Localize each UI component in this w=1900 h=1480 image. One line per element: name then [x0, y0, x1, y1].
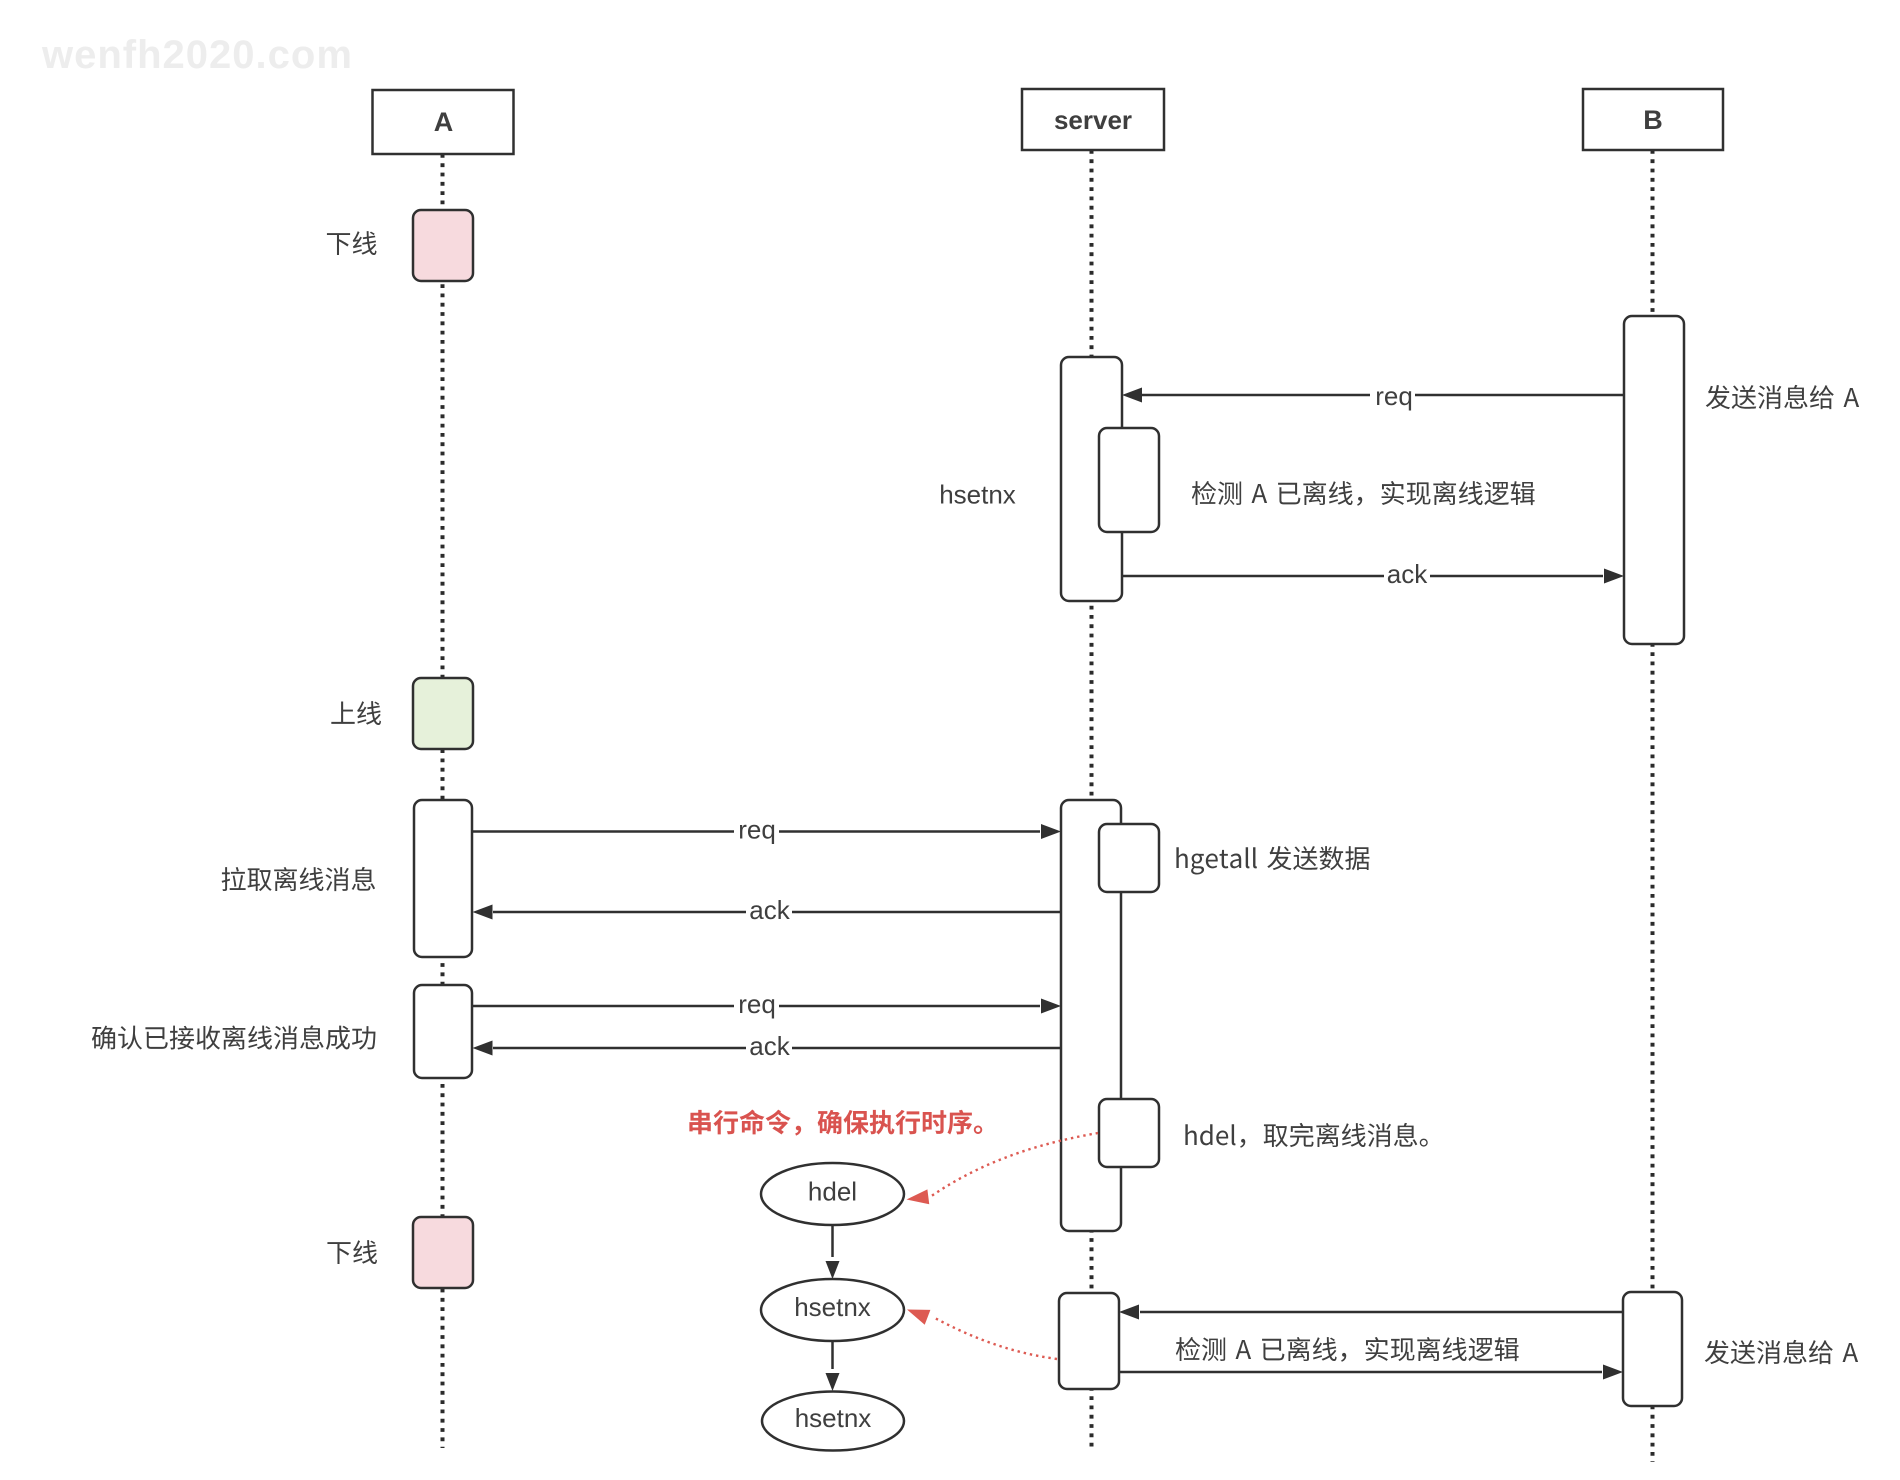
arrow ack server to A (confirm)	[493, 1047, 1061, 1050]
lifeline A (dashed)	[441, 154, 445, 1448]
arrow server to B (bottom)	[1119, 1371, 1602, 1374]
label req (top)	[1370, 383, 1415, 410]
arrow req A to server (pull)	[472, 830, 1040, 833]
ellipse hsetnx 1	[761, 1279, 904, 1341]
svg-text:hsetnx: hsetnx	[794, 1292, 871, 1322]
annotation 发送消息给 A (top)	[1706, 385, 1859, 409]
label req (pull)	[734, 818, 779, 844]
activation server mid	[1061, 800, 1121, 1231]
activation B bottom	[1623, 1292, 1682, 1406]
label 下线 (offline)	[327, 231, 377, 255]
red dotted curve hdel-activation to hdel ellipse	[930, 1133, 1098, 1197]
label 拉取离线消息	[222, 867, 375, 891]
lifeline B (dashed)	[1651, 150, 1655, 1462]
arrow req B to server	[1142, 394, 1624, 397]
svg-text:req: req	[738, 989, 776, 1019]
svg-text:ack: ack	[749, 1031, 790, 1061]
svg-text:req: req	[1375, 381, 1413, 411]
actor box B	[1583, 89, 1723, 150]
ellipse hdel	[761, 1163, 904, 1225]
svg-text:hsetnx: hsetnx	[795, 1403, 872, 1433]
lifeline server (dashed)	[1090, 150, 1094, 1451]
activation server bottom	[1059, 1293, 1119, 1389]
label ack (top)	[1384, 562, 1430, 589]
svg-text:ack: ack	[1387, 559, 1428, 589]
annotation 发送消息给 A (bottom)	[1705, 1340, 1858, 1364]
nested activation server (hsetnx)	[1099, 428, 1159, 532]
activation A confirm	[414, 985, 472, 1078]
offline state box 2 (pink) on A	[413, 1217, 473, 1288]
nested activation hgetall	[1099, 824, 1159, 892]
activation A pull	[414, 800, 472, 957]
label ack (pull)	[746, 898, 792, 925]
svg-text:hsetnx: hsetnx	[939, 480, 1016, 510]
svg-text:hdel: hdel	[808, 1177, 857, 1207]
red dotted curve server-activation to hsetnx ellipse	[934, 1318, 1057, 1360]
label ack (confirm)	[746, 1034, 792, 1061]
annotation hgetall 发送数据	[1176, 846, 1369, 874]
arrow ack server to B	[1122, 575, 1603, 578]
annotation red 串行命令，确保执行时序。	[689, 1109, 982, 1135]
online state box (green) on A	[413, 678, 473, 749]
arrow B to server (bottom)	[1140, 1311, 1623, 1314]
label 上线 (online)	[331, 701, 381, 725]
nested activation hdel	[1099, 1099, 1159, 1167]
annotation hdel 取完离线消息	[1185, 1123, 1427, 1148]
label 确认已接收离线消息成功	[92, 1025, 376, 1049]
actor box A	[373, 90, 514, 154]
label req (confirm)	[734, 992, 779, 1018]
arrow ack server to A (pull)	[493, 911, 1061, 914]
svg-text:ack: ack	[749, 895, 790, 925]
activation B top	[1624, 316, 1684, 644]
svg-text:A: A	[434, 107, 454, 137]
arrow req A to server (confirm)	[472, 1005, 1040, 1008]
offline state box (pink) on A	[413, 210, 473, 281]
arrow hdel to hsetnx	[831, 1226, 834, 1258]
label 下线 (offline) second	[327, 1240, 377, 1264]
activation server top	[1061, 357, 1122, 601]
svg-text:wenfh2020.com: wenfh2020.com	[41, 33, 353, 77]
ellipse hsetnx 2	[762, 1392, 904, 1451]
annotation 检测 A 已离线，实现离线逻辑 (bottom)	[1176, 1337, 1519, 1362]
svg-text:req: req	[738, 815, 776, 845]
svg-text:B: B	[1643, 105, 1663, 135]
actor box server	[1022, 89, 1164, 150]
annotation 检测 A 已离线，实现离线逻辑 (top)	[1192, 481, 1535, 506]
svg-text:server: server	[1054, 105, 1132, 135]
arrow hsetnx to hsetnx2	[831, 1342, 834, 1370]
